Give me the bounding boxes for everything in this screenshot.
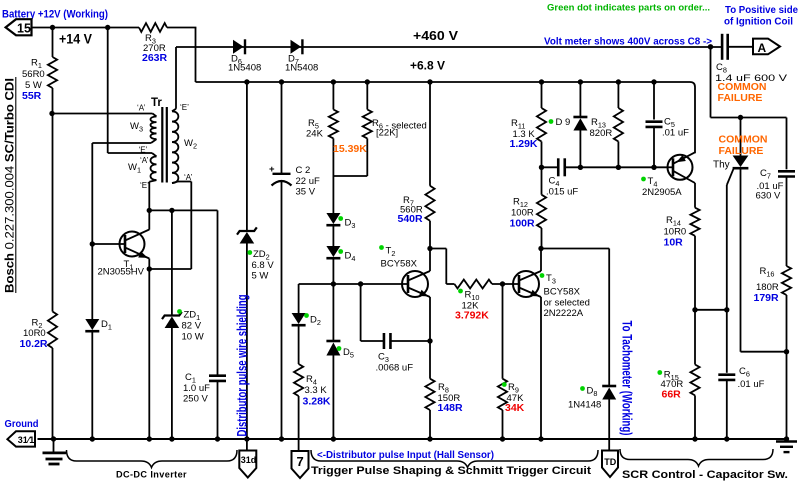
diode D8 [602,385,616,388]
resistor R10 [446,283,454,285]
svg-text:3.3 K: 3.3 K [305,385,328,396]
capacitor C2 polarized [279,79,284,84]
wire gate node rail [695,309,727,311]
svg-text:[22K]: [22K] [376,128,398,139]
brace trigger section [311,450,598,468]
capacitor C8 [721,34,724,60]
wire R6 bottom to R5 column [333,175,367,177]
transistor T1 [120,232,145,257]
node ground C2 [279,436,284,441]
svg-text:.01 uF: .01 uF [738,379,765,390]
svg-text:31d: 31d [241,455,257,465]
terminal 7 distributor pulse input [292,451,309,478]
node ground D1 [90,436,95,441]
resistor R11 [539,79,544,84]
capacitor C4 [557,158,560,176]
node ground C1 [215,436,220,441]
transformer winding W3 [151,117,157,140]
zener ZD1 [171,210,173,315]
green dot D9 [549,119,554,124]
wire thyristor gate [727,169,734,185]
wire D3 to D4 [332,226,334,246]
resistor R13 [616,79,621,84]
wire ground bus [38,438,787,440]
wire battery top rail [33,27,140,29]
svg-text:BCY58X: BCY58X [381,259,418,270]
svg-text:COMMON: COMMON [719,134,768,146]
resistor R9 [502,284,504,379]
svg-text:+14 V: +14 V [59,32,92,47]
transformer Tr core [161,107,163,183]
resistor R4 [294,364,303,396]
wire +460V branch down to SCR anode rail [708,44,713,49]
thyristor Thy [738,115,743,120]
transistor T2 [402,271,428,297]
transformer winding W2 [172,111,178,183]
wire C3 tap from base rail [358,281,363,286]
green dot T3 [540,273,545,278]
svg-text:630 V: 630 V [756,191,781,202]
svg-text:Distributor pulse wire shieldi: Distributor pulse wire shielding [234,295,249,437]
node R1 bottom / W3-A [49,111,54,116]
node ground ZD2 [244,436,249,441]
svg-text:To Tachometer (Working): To Tachometer (Working) [620,321,635,436]
svg-text:2N2905A: 2N2905A [642,187,682,198]
ground symbol left [53,439,55,452]
terminal TD tachometer [602,451,618,478]
svg-text:+: + [269,164,275,175]
svg-text:148R: 148R [438,402,464,414]
resistor R7 [427,79,432,84]
wire SCR anode rail [711,117,787,119]
green dot T4 [641,177,646,182]
svg-text:10.2R: 10.2R [20,338,48,350]
terminal 31d shield [239,451,256,478]
svg-text:22 uF: 22 uF [296,176,320,187]
svg-text:2N3055HV: 2N3055HV [98,267,145,278]
wire T4 emitter to +6.8V [673,152,695,164]
svg-text:56R0: 56R0 [22,69,45,80]
svg-text:3.28K: 3.28K [303,396,331,408]
wire W2-A down to T1 emitter [172,182,178,184]
resistor R2 [52,114,54,312]
wire T4 collector [673,171,695,183]
svg-text:820R: 820R [590,128,613,139]
svg-text:6.8 V: 6.8 V [252,260,275,271]
resistor R3 [139,23,167,32]
svg-text:C 2: C 2 [296,165,311,176]
wire C3 right to T2 emitter column [391,340,431,342]
diode D5 [332,284,334,341]
diode D7 [291,40,302,54]
node D4 on base rail [331,281,336,286]
svg-text:A: A [758,41,767,55]
node R13 base rail [616,165,621,170]
green dot R9 [502,382,507,387]
svg-text:FAILURE: FAILURE [718,92,763,104]
svg-text:100R: 100R [510,218,536,230]
capacitor C7 [786,118,788,170]
svg-text:Volt meter shows 400V across C: Volt meter shows 400V across C8 -> [544,37,712,48]
svg-text:‘E’: ‘E’ [139,146,148,155]
capacitor C3 [383,333,386,349]
svg-text:‘A’: ‘A’ [140,156,149,165]
green dot T2 [379,245,384,250]
green dot D4 [338,249,343,254]
svg-text:‘E’: ‘E’ [180,103,189,112]
capacitor C6 [726,310,728,373]
wire D2 to R4 [298,326,300,364]
svg-text:.015 uF: .015 uF [546,187,578,198]
wire C3 left [361,340,384,342]
wire W1-A feed from +14V [107,28,109,154]
svg-text:5 W: 5 W [252,271,269,282]
green dot D8 [580,386,585,391]
svg-text:<-Distributor pulse Input (Hal: <-Distributor pulse Input (Hall Sensor) [317,450,494,461]
node T3 base / R9 [500,281,505,286]
wire T2 collector up [429,249,431,272]
diode D9 [578,79,583,84]
node D9 base rail [578,165,583,170]
wire collector jog to R10 [430,248,446,250]
svg-text:263R: 263R [142,52,168,64]
node T1 collector rail left [147,208,152,213]
wire T1 collector node rail [149,209,217,211]
svg-text:or selected: or selected [544,298,590,309]
resistor R5 [331,79,336,84]
wire D2 corner [298,284,300,313]
svg-text:24K: 24K [306,129,324,140]
svg-text:10R: 10R [664,237,684,249]
node ZD1 tap [169,208,174,213]
resistor R6 [365,79,370,84]
svg-text:+6.8 V: +6.8 V [410,59,445,73]
svg-text:+460 V: +460 V [413,28,458,43]
svg-text:66R: 66R [662,389,682,401]
node C3 / emitter / R8 [427,338,432,343]
wire D1 to ground bus [91,331,93,439]
node ground D5 [331,436,336,441]
wire T1 base [92,243,125,245]
svg-text:82 V: 82 V [182,321,202,332]
diode D6 [233,40,244,54]
svg-text:34K: 34K [505,402,525,414]
wire thyristor cathode to snubber bottom [741,351,787,353]
node ground snubber [784,436,789,441]
wire W2-E up to +460V rail [175,47,177,109]
svg-text:1.0 uF: 1.0 uF [183,383,210,394]
node R14/R15 gate [692,307,697,312]
wire T3 collector rail to tach column [541,248,609,250]
node ground R9 [500,436,505,441]
transformer winding W1 [151,157,157,181]
svg-text:of Ignition Coil: of Ignition Coil [724,17,793,28]
node T3 collector / R12 [538,246,543,251]
wire +460V rail [176,46,722,48]
svg-text:1N5408: 1N5408 [228,63,261,74]
svg-text:FAILURE: FAILURE [719,145,764,157]
svg-text:Trigger Pulse Shaping & Schmit: Trigger Pulse Shaping & Schmitt Trigger … [311,465,591,477]
svg-text:‘A’: ‘A’ [137,104,146,113]
capacitor C1 [217,210,219,375]
svg-text:15.39K: 15.39K [333,143,367,155]
wire T3 collector up to R12 [540,249,542,272]
svg-text:1N5408: 1N5408 [285,63,318,74]
svg-text:55R: 55R [22,90,42,102]
terminal 31/1 ground [7,431,35,446]
wire T4 base [668,166,674,168]
node ground R2 [51,436,56,441]
svg-text:Bosch 0.227.300.004 SC/Turbo: Bosch 0.227.300.004 SC/Turbo CDI [3,78,17,293]
node ground C6 [724,436,729,441]
svg-text:To Positive side: To Positive side [725,5,798,16]
wire +6.8V bus [196,82,696,153]
wire T1 collector to node [148,210,150,229]
wire T2 emitter down [429,297,431,341]
svg-text:D 9: D 9 [556,117,571,128]
svg-text:SCR Control - Capacitor Sw.: SCR Control - Capacitor Sw. [622,469,788,481]
green dot ZD1 [177,309,182,314]
wire W3-E column to D1 [91,143,93,319]
wire C4 left [542,166,559,168]
wire T1 emitter down to ground [148,259,150,440]
transistor T4 PNP [668,155,693,180]
capacitor C5 [651,79,656,84]
terminal A to ignition coil [753,39,780,55]
ground symbol right [786,439,788,441]
node +14V at W1 feed [105,25,110,30]
svg-text:Thy: Thy [713,160,730,171]
transistor T3 [513,271,539,297]
node ground R8 [427,436,432,441]
node T2 collector / R7 [427,246,432,251]
wire corner down to +6.8V bus [195,28,197,83]
svg-text:Ground: Ground [5,418,39,430]
svg-text:.01 uF: .01 uF [662,128,689,139]
terminal 15 battery input [6,19,32,35]
svg-text:Tr: Tr [151,97,162,109]
svg-text:‘E’: ‘E’ [140,181,149,190]
svg-text:1N4148: 1N4148 [568,400,601,411]
green dot D2 [304,313,309,318]
svg-text:.0068 uF: .0068 uF [376,363,414,374]
svg-text:250 V: 250 V [183,394,208,405]
wire D4 to base rail [332,259,334,284]
node ground R15 [692,436,697,441]
node R11 / R12 / C4 [539,165,544,170]
diode D4 [326,246,340,257]
green dot R15 [657,370,662,375]
resistor R8 [429,341,431,379]
svg-text:540R: 540R [398,213,424,225]
svg-text:179R: 179R [754,292,780,304]
brace SCR section [620,449,773,466]
svg-text:TD: TD [604,457,616,467]
svg-text:7: 7 [297,454,304,469]
wire Schmitt base rail [299,283,408,285]
wire W3-E to T1 base column [151,139,157,143]
node ground ZD1 [169,436,174,441]
diode D3 [326,213,340,224]
svg-text:2N2222A: 2N2222A [544,308,584,319]
resistor R12 [541,167,543,194]
node ground T3 emitter [538,436,543,441]
node +14V at R1 [50,25,55,30]
wire W3-A [52,113,153,115]
svg-text:10 W: 10 W [182,332,204,343]
zener ZD2 [244,79,249,84]
svg-text:DC-DC Inverter: DC-DC Inverter [116,470,187,481]
svg-text:35 V: 35 V [296,187,316,198]
wire T4 base rail [565,166,668,168]
wire C8 to terminal A [728,46,753,48]
green dot R10 [458,289,463,294]
diode D2 [292,313,306,324]
svg-text:1.29K: 1.29K [510,138,538,150]
wire R3 to corner [167,27,196,29]
green dot D3 [338,216,343,221]
resistor R16 [782,266,791,295]
node gate / C6 [724,307,729,312]
node snubber bottom [784,349,789,354]
green dot D5 [337,346,342,351]
node C5 base rail [651,165,656,170]
svg-text:15: 15 [17,21,31,35]
resistor R14 [694,183,696,208]
svg-text:BCY58X: BCY58X [544,287,581,298]
svg-text:3.792K: 3.792K [455,310,489,322]
node ground T1 emitter [147,436,152,441]
resistor R15 [694,310,696,365]
svg-text:31⁄1: 31⁄1 [18,435,35,445]
wire T3 emitter to ground [540,297,542,439]
resistor R1 [52,28,54,58]
green dot ZD2 [247,250,252,255]
node T1 base / W3-E / D1 [90,241,95,246]
node T1 emitter / W2-A [147,266,152,271]
brace DC-DC inverter [67,450,238,468]
diode D1 [85,319,99,330]
svg-text:Green dot indicates parts on o: Green dot indicates parts on order... [547,3,710,14]
wire W1-E down to T1 collector node [149,180,156,182]
